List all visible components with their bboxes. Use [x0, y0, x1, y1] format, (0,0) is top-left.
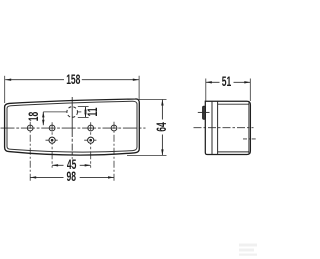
front view: vertical centerline [71, 97, 73, 159]
dimension 98: line + arrows [30, 176, 114, 178]
lamp inner contour (front view) [7, 101, 137, 152]
wire: extension line hole D (x=114) [113, 122, 115, 181]
dashed circle (bulb opening) [67, 107, 78, 118]
side view lens line 1 [211, 101, 213, 154]
dimension 11: line + arrows [84, 107, 86, 118]
dimension 158: extension lines [4, 76, 6, 103]
svg-text:18: 18 [27, 111, 41, 121]
dimension 64: extension lines [140, 99, 167, 101]
extension line from dashed circle centre to 18-dim [43, 111, 67, 113]
wire: extension line hole B (x=52.1) [51, 122, 53, 168]
side view body outline [205, 101, 250, 154]
hole row1 #4 [111, 125, 117, 131]
tick right of hole row2 C [84, 139, 97, 141]
svg-text:64: 64 [155, 122, 169, 132]
side view: right stud axis [243, 138, 257, 140]
lamp outer contour (front view) [5, 99, 140, 155]
faint watermark logo bottom-right [239, 244, 257, 256]
dimension 51: extension lines [205, 79, 207, 102]
side view lens line 2 [217, 101, 219, 154]
side view right inner edge [248, 102, 250, 155]
hole row1 #3 [88, 125, 94, 131]
side view inner top line [218, 103, 249, 105]
tick right of dashed circle [78, 111, 82, 113]
side view inner bottom line [218, 151, 249, 153]
dimension 158: line + arrows [5, 79, 139, 81]
dimension 51: line + arrows [206, 81, 251, 83]
svg-text:11: 11 [86, 107, 100, 116]
svg-text:158: 158 [66, 73, 81, 87]
side view tab axis tick [198, 111, 210, 113]
mounting hole row2 B (x=52.1) [49, 137, 55, 143]
side view: centerline [194, 127, 254, 129]
wire: extension line hole A (x=30.2) [29, 122, 31, 181]
tick left of hole row2 B [46, 139, 59, 141]
svg-text:51: 51 [222, 75, 232, 89]
svg-text:98: 98 [66, 170, 76, 184]
dimension 45: line + arrows [52, 164, 91, 166]
hole row1 #2 [49, 125, 55, 131]
dimension 11: ext ticks [78, 106, 89, 108]
dimension 64: line + arrows [161, 100, 163, 156]
wire: extension line hole C (x=90.7) [90, 122, 92, 168]
hole row1 #1 [27, 125, 33, 131]
mounting hole row2 C (x=90.7) [88, 137, 94, 143]
dimension 18: line + arrows [42, 112, 44, 125]
front view: horizontal centerline [1, 127, 146, 129]
side view mounting tab [203, 106, 206, 119]
